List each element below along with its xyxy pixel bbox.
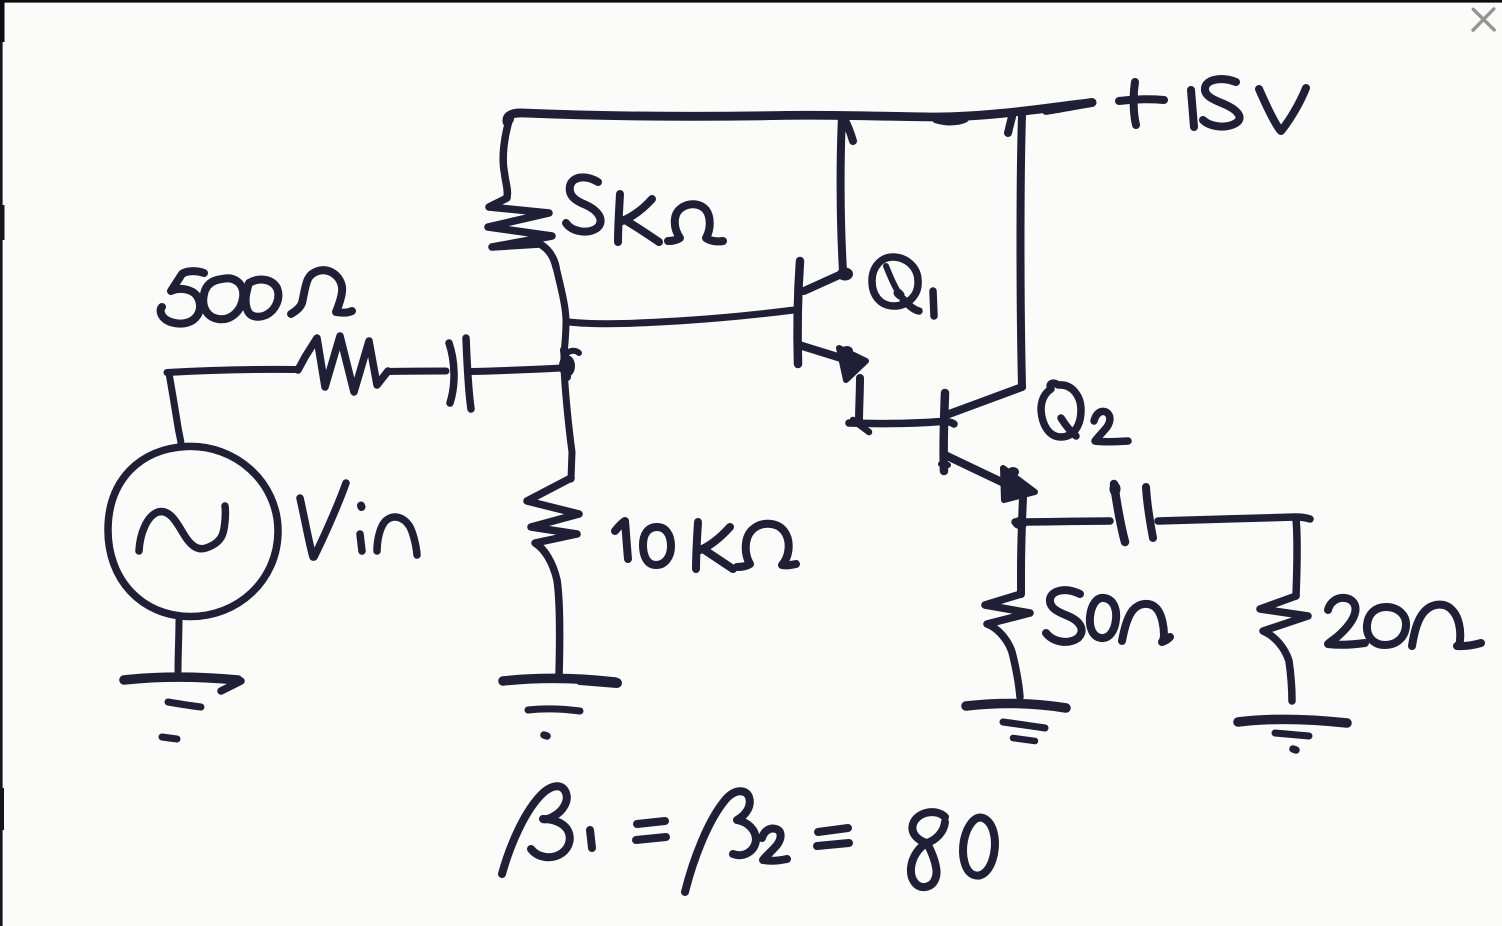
label +15V: [1119, 79, 1306, 131]
resistor R5 50 Ohm: [985, 594, 1030, 697]
wire: capacitor C2 to 20 ohm resistor: [1158, 517, 1310, 521]
label 50 Ohm value: [1046, 590, 1170, 642]
transistor Q1 emitter diagonal: [799, 345, 841, 358]
transistor Q2 base bar: [944, 393, 945, 471]
wire: node column from 5k resistor down to 10k resistor: [556, 267, 572, 479]
corner tick: [853, 420, 869, 432]
capacitor C1 right plate: [466, 338, 471, 409]
resistor R3 10kOhm: [527, 478, 579, 676]
pen blob at Q1 collector junction: [837, 268, 853, 281]
wire: +15V supply rail: [507, 103, 1092, 123]
label Q2: [1041, 383, 1128, 442]
pen blob at rail left corner: [504, 114, 514, 124]
wire: capacitor C1 to node: [470, 368, 562, 372]
wire: corner to Q2 base: [849, 421, 954, 424]
wire: Q2 collector up to rail: [1008, 115, 1022, 387]
wire: Q2 emitter down to 50 ohm: [1021, 497, 1023, 594]
capacitor C1 left plate: [449, 343, 454, 403]
wire: 500 ohm to capacitor C1: [388, 368, 446, 376]
pen blob at source ground right end: [227, 677, 241, 686]
label 5kOhm value: [566, 177, 723, 242]
sine wave inside source: [139, 506, 225, 551]
wire: source bottom lead: [178, 620, 179, 671]
pen blob at emitter output junction: [1013, 517, 1028, 529]
label 10kOhm value: [615, 521, 796, 569]
ground (10k resistor): [503, 678, 617, 736]
top window border: [0, 0, 1502, 3]
transistor Q2 emitter arrow: [1003, 468, 1035, 500]
voltage source Vin circle: [108, 446, 278, 616]
left window border: [0, 0, 3, 926]
capacitor C2 right plate: [1146, 487, 1153, 538]
wire: Q1 emitter down to corner: [859, 378, 860, 422]
label 20 Ohm value: [1328, 598, 1481, 646]
annotation beta1 = beta2 = 80: [502, 786, 995, 892]
transistor Q2 emitter diagonal: [945, 455, 1008, 485]
pen blob at node junction: [559, 361, 569, 372]
transistor Q1 emitter arrow: [839, 348, 866, 380]
node junction tick: [564, 350, 567, 377]
resistor R2 500 Ohm: [298, 336, 388, 392]
wire: Q1 collector up to rail: [841, 116, 853, 271]
resistor R1 5kOhm: [488, 121, 556, 267]
ground (source): [124, 677, 241, 739]
wire: input line from source corner to 500 ohm resistor: [167, 369, 298, 372]
wire: Q2 emitter node to capacitor C2: [1015, 521, 1110, 522]
ground (50 ohm): [966, 704, 1066, 741]
label 500 Ohm value: [161, 270, 352, 323]
resistor R4 20 Ohm: [1260, 596, 1308, 701]
capacitor C2 left plate: [1114, 484, 1125, 542]
transistor Q2 collector diagonal: [949, 387, 1022, 414]
label Q1: [872, 257, 934, 316]
pen blob at capacitor C2 left plate top: [1110, 482, 1121, 496]
wire: base branch from node to Q1 base: [569, 310, 794, 324]
transistor Q1 collector diagonal: [804, 272, 846, 291]
close button X: [1473, 9, 1494, 30]
wire: 20 ohm top lead: [1296, 519, 1297, 596]
ground (20 ohm): [1238, 719, 1347, 750]
label Vin: [300, 483, 417, 557]
transistor Q1 base bar: [798, 261, 800, 364]
wire: input corner down to source: [169, 373, 181, 444]
